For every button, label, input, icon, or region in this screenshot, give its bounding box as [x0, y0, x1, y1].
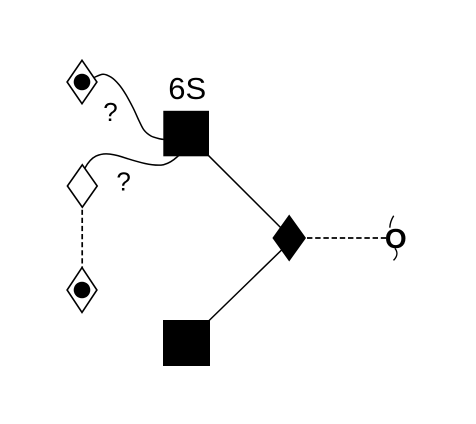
- label ? (linkage 1): [103, 97, 117, 127]
- reducing end O symbol: [385, 223, 407, 254]
- wire dashed bond: central diamond to reducing-end O: [291, 237, 387, 239]
- label 6S: [168, 71, 206, 106]
- wire dashed bond: white diamond to bottom-left diamond: [81, 202, 83, 275]
- top filled square (6S GalNAc): [163, 111, 209, 157]
- squiggle bottom arc at reducing end: [394, 248, 397, 260]
- label ? (linkage 2): [116, 166, 130, 196]
- wire bond: top square to central diamond: [186, 133, 289, 236]
- wire bond: bottom square to central diamond: [187, 243, 290, 343]
- bottom-left diamond with filled circle: [67, 268, 97, 313]
- wire curved bond: white diamond to top square: [81, 154, 180, 175]
- central filled diamond (NeuAc): [273, 215, 305, 260]
- wire curved bond: top-left diamond to top square: [90, 74, 164, 139]
- bottom filled square: [163, 320, 210, 366]
- svg-text:6S: 6S: [168, 71, 206, 106]
- svg-text:?: ?: [116, 166, 130, 196]
- squiggle top arc at reducing end: [390, 216, 394, 228]
- middle white diamond: [67, 165, 97, 207]
- top-left diamond (Fuc? outlined diamond with filled circle): [67, 60, 97, 103]
- svg-text:?: ?: [103, 97, 117, 127]
